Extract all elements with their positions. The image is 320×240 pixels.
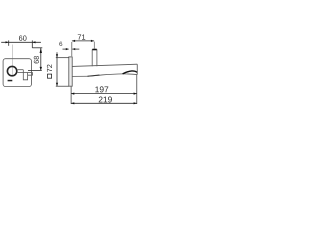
front view: lever lower block xyxy=(23,70,27,80)
side view: handle stub dark top xyxy=(93,49,97,51)
left extension line for 197/219 xyxy=(70,87,72,104)
side view: underside lens highlight xyxy=(88,75,100,76)
dimension square-72 line xyxy=(56,52,58,86)
front view: wall plate xyxy=(3,59,31,87)
dimension 68 top arrow xyxy=(40,48,42,53)
dimension 6 right arrow and tail xyxy=(72,48,75,50)
dimension 71 text xyxy=(78,35,85,40)
dimension square-72 text (rotated) xyxy=(47,65,52,72)
front view: lever top line xyxy=(18,69,24,71)
dimension 71 right arrow xyxy=(91,40,94,42)
dimension 71 right extension line xyxy=(93,42,95,49)
dimension 60 left arrow xyxy=(6,41,9,43)
dimension 60 right arrow xyxy=(32,41,35,43)
dimension 197 right arrow xyxy=(134,93,137,95)
dimension 219 left arrow xyxy=(71,102,74,104)
dimension 71 left arrow xyxy=(72,40,75,42)
dimension 68 bottom extension line xyxy=(28,69,42,71)
dimension 60 right extension line xyxy=(31,40,33,47)
dimension 68 top extension line xyxy=(32,47,42,49)
side view: spout top edge xyxy=(72,64,137,66)
dimension 6 left line and arrow xyxy=(63,48,69,50)
dimension 219 right arrow xyxy=(134,102,137,104)
side view: spout underside xyxy=(72,74,137,77)
dimension 68 line xyxy=(40,48,42,71)
side view: wall plate xyxy=(69,57,72,86)
dimension 71 left extension line xyxy=(71,42,73,56)
front view: slim bar bottom and end cap xyxy=(28,73,33,76)
dimension 6 text xyxy=(59,42,62,46)
front view: vertical centerline xyxy=(12,45,14,77)
side view: handle stub xyxy=(92,49,97,66)
dimension square-72 top arrow xyxy=(56,54,58,57)
dimension 60 text xyxy=(19,36,27,41)
dimension square-72 bottom extension line xyxy=(56,85,69,87)
dimension square-72 bottom arrow xyxy=(56,83,58,86)
dimension 197 text xyxy=(95,86,108,92)
right extension line for 197/219 xyxy=(136,75,138,104)
dimension 219 text xyxy=(99,97,112,103)
dimension 60 line xyxy=(1,41,41,43)
side view: spout tip inner curve xyxy=(123,71,137,74)
dimension 197 left arrow xyxy=(71,93,74,95)
dimension 219 line xyxy=(71,102,137,104)
dimension 68 text (rotated) xyxy=(34,56,39,63)
dimension square symbol xyxy=(48,74,52,78)
side view: spout tip right edge xyxy=(136,64,138,74)
dimension square-72 top extension line xyxy=(56,57,69,59)
front view: black tab below circle xyxy=(8,80,13,82)
dimension 68 bottom arrow xyxy=(40,67,42,71)
dimension 71 line xyxy=(72,40,94,42)
front view: handle circle xyxy=(7,66,16,75)
dimension 60 left extension line xyxy=(8,40,10,45)
front view: lever bottom / slim bar top line xyxy=(18,72,33,74)
dimension 197 line xyxy=(71,93,137,95)
